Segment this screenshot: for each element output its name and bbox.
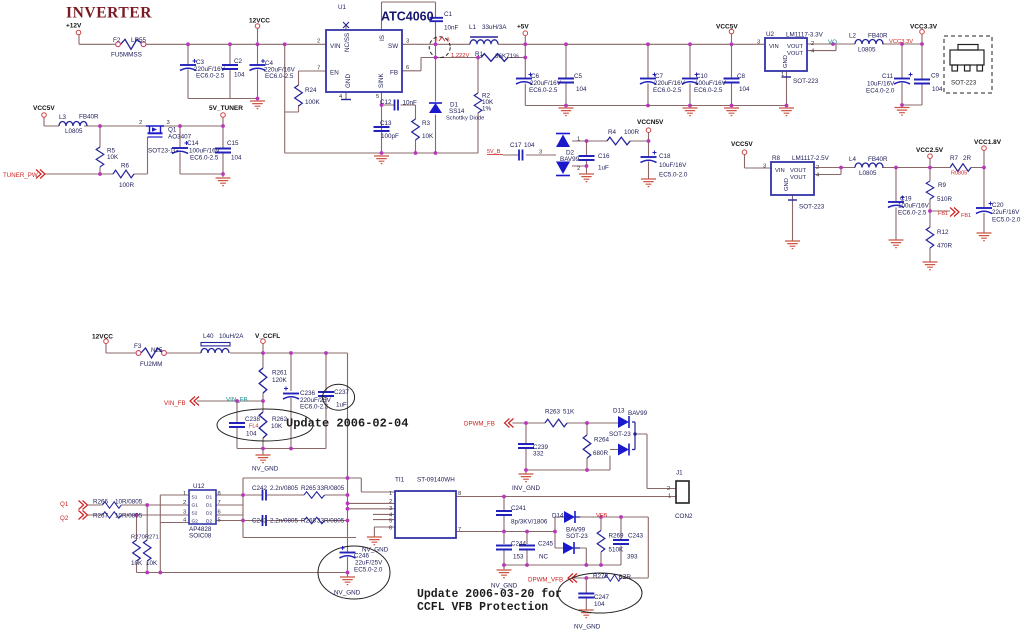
svg-text:R261: R261 — [272, 370, 288, 377]
svg-text:EC6.0-2.5: EC6.0-2.5 — [265, 73, 294, 80]
svg-text:470R: 470R — [937, 243, 953, 250]
svg-text:D13: D13 — [613, 408, 625, 415]
svg-text:GND: GND — [345, 74, 352, 88]
svg-text:100uF/16V: 100uF/16V — [898, 203, 930, 210]
svg-text:7: 7 — [458, 527, 461, 533]
svg-text:C17: C17 — [510, 142, 522, 149]
svg-text:C16: C16 — [598, 153, 610, 160]
svg-text:104: 104 — [594, 601, 605, 608]
svg-text:R266: R266 — [93, 499, 109, 506]
svg-text:Q1: Q1 — [60, 501, 69, 508]
svg-text:5: 5 — [376, 94, 379, 100]
svg-text:C19: C19 — [900, 196, 912, 203]
svg-text:C2: C2 — [234, 58, 243, 65]
svg-text:L0805: L0805 — [858, 47, 876, 54]
svg-text:10uF/16V: 10uF/16V — [659, 162, 687, 169]
svg-text:C8: C8 — [737, 73, 746, 80]
svg-text:VIN: VIN — [330, 43, 341, 50]
svg-text:SOT-23: SOT-23 — [609, 431, 631, 438]
svg-text:2: 2 — [816, 165, 819, 171]
svg-text:NV_GND: NV_GND — [334, 590, 361, 597]
svg-text:U2: U2 — [766, 31, 775, 38]
svg-text:C13: C13 — [380, 120, 392, 127]
svg-text:VOUT: VOUT — [787, 51, 804, 57]
svg-text:3: 3 — [389, 506, 392, 512]
svg-text:VOUT: VOUT — [790, 175, 807, 181]
svg-text:100uF/16V: 100uF/16V — [189, 148, 221, 155]
svg-text:R3: R3 — [422, 120, 431, 127]
svg-text:R6: R6 — [121, 163, 130, 170]
svg-text:SS14: SS14 — [449, 108, 465, 115]
svg-text:SOT-23: SOT-23 — [566, 533, 588, 540]
svg-text:VCC5V: VCC5V — [716, 24, 738, 31]
svg-text:104: 104 — [231, 155, 242, 162]
svg-text:51K: 51K — [563, 409, 575, 416]
svg-text:SOT23-1G: SOT23-1G — [148, 148, 179, 155]
svg-text:NV_GND: NV_GND — [252, 466, 279, 473]
svg-text:C9: C9 — [931, 73, 940, 80]
svg-text:Q2: Q2 — [60, 515, 69, 522]
svg-text:3: 3 — [435, 38, 438, 44]
svg-text:1%: 1% — [482, 106, 492, 113]
svg-text:NC/SS: NC/SS — [344, 33, 351, 52]
svg-text:VOUT: VOUT — [790, 168, 807, 174]
svg-text:EC6.0-2.5: EC6.0-2.5 — [529, 87, 558, 94]
svg-text:1uF: 1uF — [598, 165, 609, 172]
svg-text:U1: U1 — [338, 4, 347, 11]
svg-text:10uH/2A: 10uH/2A — [219, 333, 244, 340]
svg-text:R267: R267 — [93, 513, 109, 520]
svg-text:C15: C15 — [227, 140, 239, 147]
svg-text:2: 2 — [667, 486, 670, 492]
svg-text:VFB: VFB — [596, 513, 607, 519]
svg-text:10nF: 10nF — [444, 25, 459, 32]
svg-text:6: 6 — [218, 510, 221, 516]
svg-text:2: 2 — [183, 500, 186, 506]
svg-text:BAV99: BAV99 — [628, 410, 648, 417]
svg-text:R12: R12 — [937, 229, 949, 236]
svg-text:Update 2006-02-04: Update 2006-02-04 — [286, 417, 408, 431]
svg-text:D2: D2 — [206, 511, 212, 517]
svg-text:EC6.0-2.5: EC6.0-2.5 — [300, 404, 329, 411]
svg-text:C243: C243 — [628, 533, 644, 540]
svg-text:G1: G1 — [192, 503, 199, 509]
svg-text:104: 104 — [739, 86, 750, 93]
svg-text:332: 332 — [533, 451, 544, 458]
svg-text:2: 2 — [139, 120, 142, 126]
svg-text:VO: VO — [828, 39, 837, 46]
svg-text:10K: 10K — [107, 154, 119, 161]
svg-text:C3: C3 — [196, 59, 205, 66]
svg-text:33uH/3A: 33uH/3A — [482, 24, 507, 31]
svg-text:GND: GND — [783, 55, 789, 68]
svg-text:NV_GND: NV_GND — [574, 624, 601, 631]
svg-text:D1: D1 — [206, 495, 212, 501]
svg-text:3: 3 — [539, 150, 542, 156]
svg-text:C236: C236 — [300, 390, 316, 397]
svg-text:DPWM_FB: DPWM_FB — [464, 421, 495, 428]
svg-text:L0805: L0805 — [859, 170, 877, 177]
svg-text:C242: C242 — [252, 485, 268, 492]
svg-text:R263: R263 — [545, 409, 561, 416]
svg-text:1: 1 — [577, 137, 580, 143]
svg-text:104: 104 — [932, 86, 943, 93]
svg-text:R8: R8 — [772, 155, 781, 162]
svg-text:ATC4060: ATC4060 — [381, 10, 434, 24]
svg-text:C7: C7 — [655, 73, 664, 80]
svg-text:C11: C11 — [882, 73, 894, 80]
svg-text:3: 3 — [757, 40, 760, 46]
svg-text:C241: C241 — [511, 505, 527, 512]
svg-text:2.2n/0805: 2.2n/0805 — [270, 485, 299, 492]
svg-text:NV_GND: NV_GND — [491, 583, 518, 590]
svg-text:10R/0805: 10R/0805 — [115, 499, 143, 506]
svg-text:Update 2006-03-20 for: Update 2006-03-20 for — [417, 588, 562, 601]
svg-text:VCC3.3V: VCC3.3V — [889, 39, 913, 45]
svg-text:C20: C20 — [992, 202, 1004, 209]
svg-text:INVERTER: INVERTER — [66, 5, 152, 22]
svg-text:1uF: 1uF — [336, 402, 347, 409]
svg-text:1: 1 — [668, 494, 671, 500]
svg-text:D14: D14 — [552, 513, 564, 520]
svg-text:R270R271: R270R271 — [131, 535, 159, 541]
svg-text:10K: 10K — [146, 560, 158, 567]
svg-text:C1: C1 — [444, 11, 453, 18]
svg-text:R4: R4 — [608, 129, 617, 136]
svg-text:L2: L2 — [849, 33, 857, 40]
svg-text:C246: C246 — [354, 553, 370, 560]
svg-text:LM1117-3.3V: LM1117-3.3V — [786, 32, 824, 39]
svg-text:2: 2 — [389, 499, 392, 505]
svg-text:R269: R269 — [609, 533, 625, 540]
svg-text:8: 8 — [218, 491, 221, 497]
svg-text:680R: 680R — [593, 450, 609, 457]
svg-text:FB: FB — [390, 70, 398, 77]
svg-text:NC: NC — [539, 554, 549, 561]
svg-text:R9: R9 — [938, 182, 947, 189]
svg-text:1: 1 — [389, 491, 392, 497]
svg-text:3: 3 — [406, 39, 409, 45]
svg-text:FB1: FB1 — [938, 211, 948, 217]
svg-text:L0805: L0805 — [65, 128, 83, 135]
svg-text:120K: 120K — [272, 377, 288, 384]
svg-text:N25: N25 — [151, 347, 163, 354]
svg-text:3: 3 — [763, 164, 766, 170]
svg-text:100uF/16V: 100uF/16V — [695, 80, 727, 87]
svg-text:+12V: +12V — [66, 23, 82, 30]
svg-text:393: 393 — [627, 554, 638, 561]
svg-text:L1: L1 — [469, 24, 477, 31]
svg-text:EN: EN — [330, 70, 339, 77]
svg-text:D1: D1 — [206, 503, 212, 509]
svg-text:1.222V: 1.222V — [451, 53, 470, 59]
svg-text:SOT-223: SOT-223 — [951, 80, 977, 87]
svg-text:36K71%: 36K71% — [495, 53, 519, 60]
svg-text:220uF/16V: 220uF/16V — [530, 80, 562, 87]
svg-text:S1: S1 — [192, 495, 198, 501]
svg-text:1: 1 — [781, 72, 784, 78]
svg-text:LM1117-2.5V: LM1117-2.5V — [792, 155, 830, 162]
svg-text:220uF/16V: 220uF/16V — [654, 80, 686, 87]
svg-text:J1: J1 — [676, 470, 683, 477]
svg-text:100R: 100R — [119, 182, 135, 189]
svg-text:R264: R264 — [594, 437, 610, 444]
svg-text:7: 7 — [317, 66, 320, 72]
svg-text:IS: IS — [379, 35, 386, 41]
svg-text:12VCC: 12VCC — [92, 334, 113, 341]
svg-text:G2: G2 — [192, 519, 199, 525]
svg-text:Schottky Diode: Schottky Diode — [446, 116, 484, 122]
svg-text:10R/0805: 10R/0805 — [115, 513, 143, 520]
svg-text:EC6.0-2.5: EC6.0-2.5 — [694, 87, 723, 94]
svg-text:GND: GND — [784, 178, 790, 191]
svg-text:L40: L40 — [203, 333, 214, 340]
svg-text:FB40R: FB40R — [868, 156, 888, 163]
svg-text:D2: D2 — [206, 519, 212, 525]
svg-text:R1: R1 — [475, 51, 484, 58]
svg-text:EC6.0-2.5: EC6.0-2.5 — [898, 210, 927, 217]
svg-text:510R: 510R — [937, 196, 953, 203]
svg-text:C238: C238 — [245, 416, 261, 423]
svg-text:C244: C244 — [511, 541, 527, 548]
svg-text:2: 2 — [811, 41, 814, 47]
svg-text:2: 2 — [577, 166, 580, 172]
svg-text:104: 104 — [234, 72, 245, 79]
svg-text:104: 104 — [246, 431, 257, 438]
svg-text:CON2: CON2 — [675, 513, 693, 520]
svg-text:C12: C12 — [380, 99, 392, 106]
svg-text:10K: 10K — [131, 560, 143, 567]
svg-text:3: 3 — [167, 120, 170, 126]
svg-text:5: 5 — [218, 518, 221, 524]
svg-text:R265: R265 — [301, 485, 317, 492]
svg-text:VOUT: VOUT — [787, 44, 804, 50]
svg-text:10uF/16V: 10uF/16V — [867, 81, 895, 88]
svg-text:ST-09140WH: ST-09140WH — [417, 477, 455, 484]
svg-text:C6: C6 — [531, 73, 540, 80]
svg-text:10K: 10K — [422, 133, 434, 140]
svg-text:DPWM_VFB: DPWM_VFB — [528, 577, 563, 584]
svg-text:VCC5V: VCC5V — [731, 141, 753, 148]
svg-text:R7: R7 — [950, 155, 959, 162]
svg-text:153: 153 — [513, 554, 524, 561]
svg-text:FB40R: FB40R — [868, 33, 888, 40]
svg-text:VIN_FB: VIN_FB — [226, 397, 248, 404]
svg-text:VIN: VIN — [775, 168, 785, 174]
svg-text:C237: C237 — [334, 389, 350, 396]
svg-text:R268: R268 — [301, 518, 317, 525]
svg-text:TUNER_PW: TUNER_PW — [3, 172, 38, 179]
svg-text:EC5.0-2.0: EC5.0-2.0 — [354, 567, 383, 574]
svg-text:C18: C18 — [659, 153, 671, 160]
svg-text:510K: 510K — [609, 547, 625, 554]
svg-text:EC5.0-2.0: EC5.0-2.0 — [992, 217, 1021, 224]
svg-text:V_CCFL: V_CCFL — [255, 333, 280, 340]
svg-text:10nF: 10nF — [403, 100, 418, 107]
svg-text:C245: C245 — [538, 541, 554, 548]
svg-text:EC6.0-2.5: EC6.0-2.5 — [196, 73, 225, 80]
svg-text:2R: 2R — [963, 155, 972, 162]
svg-text:F2: F2 — [113, 37, 121, 44]
svg-text:100K: 100K — [305, 99, 321, 106]
svg-text:R0805: R0805 — [951, 171, 967, 177]
svg-text:10K: 10K — [271, 423, 283, 430]
svg-text:VCC5V: VCC5V — [33, 105, 55, 112]
svg-text:L3: L3 — [59, 114, 67, 121]
svg-text:1: 1 — [183, 491, 186, 497]
svg-text:104: 104 — [524, 142, 535, 149]
svg-text:12VCC: 12VCC — [249, 18, 270, 25]
svg-text:EC6.0-2.5: EC6.0-2.5 — [190, 155, 219, 162]
svg-text:Q1: Q1 — [168, 127, 177, 134]
svg-text:FU5MMSS: FU5MMSS — [111, 52, 142, 59]
svg-text:8: 8 — [458, 491, 461, 497]
svg-text:104: 104 — [576, 86, 587, 93]
svg-text:100R: 100R — [624, 129, 640, 136]
svg-text:5: 5 — [389, 519, 392, 525]
svg-text:6: 6 — [406, 65, 409, 71]
svg-text:EC4.0-2.0: EC4.0-2.0 — [866, 88, 895, 95]
svg-text:INV_GND: INV_GND — [512, 485, 540, 492]
svg-text:2.2n/0805: 2.2n/0805 — [270, 518, 299, 525]
svg-text:SOIC08: SOIC08 — [189, 533, 212, 540]
svg-text:FB40R: FB40R — [79, 114, 99, 121]
svg-text:+5V: +5V — [517, 24, 529, 31]
svg-text:VCC3.3V: VCC3.3V — [910, 24, 938, 31]
svg-text:TI1: TI1 — [395, 477, 405, 484]
svg-text:33R/0805: 33R/0805 — [317, 518, 345, 525]
svg-text:BAV99: BAV99 — [560, 156, 580, 163]
svg-text:C10: C10 — [696, 73, 708, 80]
svg-text:EC5.0-2.0: EC5.0-2.0 — [659, 172, 688, 179]
svg-text:SOT-223: SOT-223 — [793, 78, 819, 85]
svg-text:6: 6 — [389, 526, 392, 532]
svg-text:R272: R272 — [593, 573, 609, 580]
svg-text:3: 3 — [183, 510, 186, 516]
svg-text:CCFL VFB Protection: CCFL VFB Protection — [417, 601, 548, 614]
svg-text:8p/3KV/1806: 8p/3KV/1806 — [511, 519, 548, 526]
svg-text:VIN_FB: VIN_FB — [164, 400, 186, 407]
svg-text:SW: SW — [388, 43, 398, 50]
svg-text:FL4: FL4 — [249, 424, 258, 430]
svg-text:F3: F3 — [134, 343, 142, 350]
svg-text:FB1: FB1 — [961, 213, 971, 219]
svg-text:7: 7 — [218, 500, 221, 506]
svg-text:S2: S2 — [192, 511, 198, 517]
svg-text:22uF/16V: 22uF/16V — [992, 209, 1020, 216]
svg-text:C243: C243 — [252, 518, 268, 525]
svg-text:100pF: 100pF — [381, 133, 399, 140]
svg-text:33R/0805: 33R/0805 — [317, 485, 345, 492]
svg-text:C247: C247 — [594, 594, 610, 601]
svg-text:FU2MM: FU2MM — [140, 361, 162, 368]
svg-text:LR55: LR55 — [131, 37, 147, 44]
svg-text:R24: R24 — [305, 87, 317, 94]
svg-text:8: 8 — [447, 38, 450, 44]
svg-text:L4: L4 — [849, 156, 857, 163]
svg-text:22uF/25V: 22uF/25V — [355, 560, 383, 567]
svg-text:5V_TUNER: 5V_TUNER — [209, 105, 243, 112]
svg-text:VCC2.5V: VCC2.5V — [916, 147, 944, 154]
svg-text:EC6.0-2.5: EC6.0-2.5 — [653, 87, 682, 94]
svg-text:VIN: VIN — [769, 44, 779, 50]
svg-text:SINK: SINK — [378, 73, 385, 88]
svg-text:VCCN5V: VCCN5V — [637, 119, 664, 126]
svg-text:BZR: BZR — [619, 574, 632, 581]
svg-text:SOT-223: SOT-223 — [799, 204, 825, 211]
svg-text:C5: C5 — [574, 73, 583, 80]
svg-text:VCC1.8V: VCC1.8V — [974, 139, 1002, 146]
svg-text:2: 2 — [317, 39, 320, 45]
svg-text:C14: C14 — [187, 140, 199, 147]
svg-text:U12: U12 — [193, 483, 205, 490]
